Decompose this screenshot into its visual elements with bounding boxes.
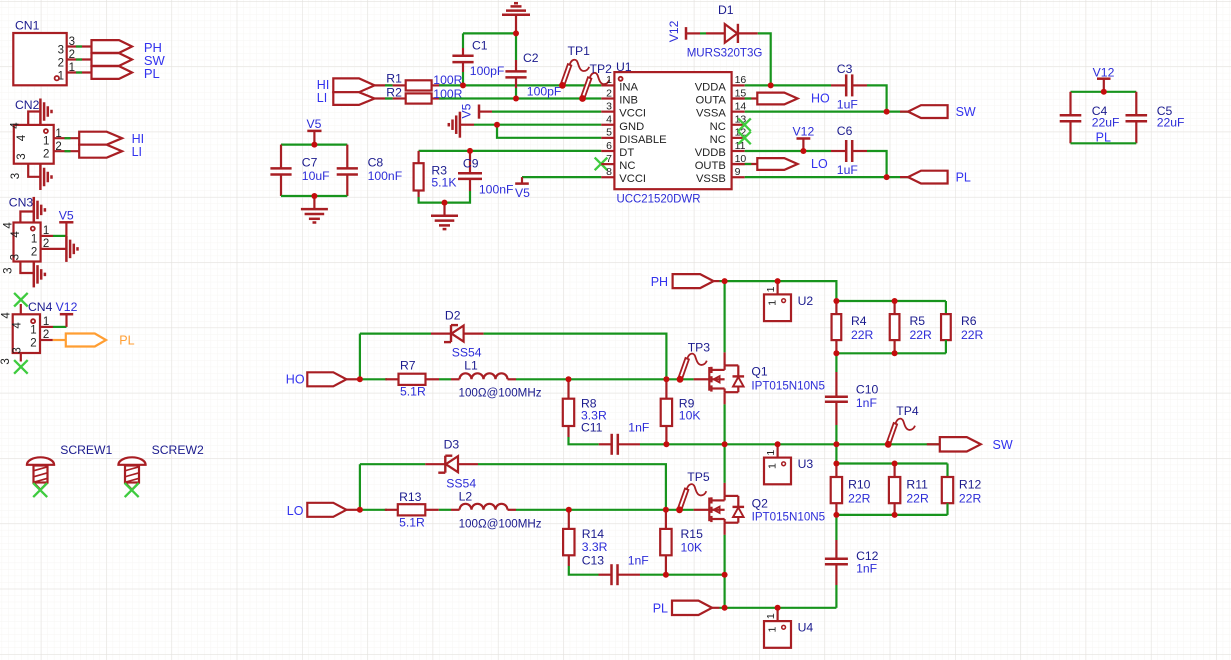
wire [53,235,66,237]
capacitor C4 [1060,92,1120,144]
junction [892,461,898,467]
resistor R10 [831,464,871,515]
svg-text:3: 3 [10,173,22,179]
svg-text:14: 14 [735,100,747,112]
junction [311,193,317,199]
ground R3C9 [431,203,458,230]
svg-text:1: 1 [55,128,61,140]
wire [516,378,694,380]
junction [663,572,669,578]
flag PL [92,66,160,81]
junction [884,174,890,180]
svg-text:1: 1 [766,463,778,469]
ground CN2 bottom [40,164,51,190]
wire VDDB [745,150,831,152]
junction [722,605,728,611]
svg-text:22R: 22R [959,492,982,506]
svg-text:LI: LI [317,91,327,105]
svg-text:INB: INB [619,95,638,107]
svg-text:C1: C1 [472,39,488,53]
svg-text:R6: R6 [961,314,977,328]
junction [677,376,683,382]
svg-text:4: 4 [606,114,612,126]
svg-text:SCREW1: SCREW1 [60,443,112,457]
svg-text:U2: U2 [798,294,814,308]
junction [833,461,839,467]
flag PL orange [66,334,135,348]
svg-text:IPT015N10N5: IPT015N10N5 [752,509,826,523]
svg-text:V12: V12 [56,300,78,314]
diode D1 MURS320T3G [687,3,763,60]
wire [53,326,67,328]
no-connect CN4 pin4 [14,293,28,307]
svg-text:3: 3 [10,254,22,260]
junction [892,298,898,304]
svg-text:V12: V12 [667,20,681,42]
junction [442,200,448,206]
svg-text:2: 2 [606,87,612,99]
resistor R5 [890,301,932,353]
wire VSSA-SW [745,110,908,112]
svg-text:3: 3 [16,153,28,159]
flag HO out [732,92,830,106]
svg-text:TP5: TP5 [687,470,710,484]
wire [439,509,451,511]
flag SW bottom [927,437,1013,452]
svg-text:4: 4 [10,231,22,238]
svg-text:NC: NC [710,121,726,133]
capacitor C3 [831,62,867,112]
junction [513,96,519,102]
svg-text:1: 1 [765,613,777,619]
svg-text:PL: PL [119,334,134,348]
resistor R9 [661,379,701,444]
wire [569,437,599,444]
wire SW row [640,443,940,445]
svg-text:1: 1 [43,136,49,148]
junction [892,350,898,356]
svg-text:D2: D2 [445,308,461,322]
inductor L1 [451,358,542,399]
flag SW [92,53,166,68]
svg-text:LO: LO [287,504,304,518]
wire D3 left [360,464,425,510]
svg-text:4: 4 [16,134,28,141]
wire D2 corner [359,334,361,380]
junction [663,441,669,447]
testpoint TP3 [677,341,711,383]
resistor R1 [386,72,462,91]
connector CN2 [10,98,80,179]
wire VSSB-PL [745,176,908,178]
svg-text:100Ω@100MHz: 100Ω@100MHz [459,517,542,531]
svg-text:U1: U1 [616,60,632,74]
junction [494,122,500,128]
flag PH bottom [651,274,714,289]
svg-text:R12: R12 [959,478,982,492]
capacitor C13 [582,554,649,586]
ground C7C8 [301,196,328,223]
wire [569,566,599,575]
wire PH row [714,281,837,301]
junction [467,148,473,154]
wire LO row [360,509,387,511]
svg-text:2: 2 [43,149,49,161]
resistor R4 [832,301,874,353]
wire [867,85,887,111]
svg-text:C13: C13 [582,554,605,568]
junction [775,278,781,284]
svg-text:TP3: TP3 [688,341,711,355]
svg-text:5.1K: 5.1K [431,175,456,189]
op-amp U1 UCC21520DWR [601,60,746,206]
wire rail R4R5R6 bottom [836,340,946,353]
wire INA [439,84,601,86]
resistor R13 [385,490,439,529]
svg-text:SCREW2: SCREW2 [152,443,204,457]
svg-text:R2: R2 [386,86,402,100]
flag HI input [317,78,375,92]
junction [884,109,890,115]
svg-text:1: 1 [765,286,777,292]
junction [722,441,728,447]
svg-text:8: 8 [606,166,612,178]
connector CN3 [3,196,67,274]
junction [357,507,363,513]
wire [375,97,393,99]
resistor R3 [414,151,457,197]
junction [833,441,839,447]
resistor R7 [385,358,439,398]
wire [385,84,393,86]
svg-text:1nF: 1nF [628,421,649,435]
capacitor C11 [581,421,649,455]
svg-text:INA: INA [619,81,638,93]
svg-text:VCCI: VCCI [619,173,646,185]
svg-text:C8: C8 [368,156,384,170]
resistor R14 [563,510,608,566]
svg-text:R15: R15 [681,527,704,541]
svg-text:100pF: 100pF [470,64,505,78]
wire / net PL [1071,131,1137,145]
wire [945,301,947,314]
svg-text:OUTB: OUTB [695,160,726,172]
svg-text:R14: R14 [582,527,605,541]
svg-text:1: 1 [606,74,612,86]
capacitor C12 [825,515,879,608]
svg-text:6: 6 [606,140,612,152]
svg-text:R7: R7 [400,358,416,372]
svg-text:PL: PL [1096,131,1111,145]
svg-text:L2: L2 [459,489,473,503]
svg-text:LO: LO [811,157,828,171]
svg-text:L1: L1 [464,358,478,372]
svg-text:3: 3 [58,45,64,57]
wire DISABLE [497,125,601,138]
wire rail R4R5R6 top [836,300,946,302]
wire DT [419,150,602,152]
svg-text:CN3: CN3 [9,196,34,210]
supply V12 D1 [667,20,700,42]
no-connect pin13 [738,118,751,131]
junction [663,376,669,382]
svg-text:10uF: 10uF [302,169,330,183]
transistor Q2 IPT015N10N5 [694,496,826,523]
svg-text:PL: PL [653,602,668,616]
svg-text:22uF: 22uF [1157,116,1185,130]
wire [758,33,771,85]
testpoint TP2 [579,62,612,102]
svg-text:100Ω@100MHz: 100Ω@100MHz [459,386,542,400]
svg-text:V5: V5 [460,103,474,118]
svg-text:1: 1 [766,627,778,633]
svg-text:R1: R1 [386,72,402,86]
supply V5 CN3 [59,209,74,236]
wire R3-C9 bottom [419,191,470,203]
svg-text:3: 3 [606,100,612,112]
svg-text:3.3R: 3.3R [582,540,608,554]
inductor L2 [451,489,542,530]
diode D3 SS54 [425,437,478,490]
svg-text:3: 3 [12,347,24,353]
ground pin4 [449,112,474,138]
junction [775,441,781,447]
screw SCREW2 [118,443,204,497]
svg-text:HI: HI [132,132,145,146]
svg-text:TP4: TP4 [896,404,919,418]
svg-text:2: 2 [55,141,61,153]
svg-text:TP1: TP1 [568,44,591,58]
wire Q2 drain [723,444,725,496]
jumper U4 [764,608,813,648]
svg-text:D3: D3 [444,437,460,451]
supply V12 pin11 [793,124,815,151]
svg-text:100nF: 100nF [368,169,403,183]
svg-text:GND: GND [619,121,644,133]
wire [516,509,694,511]
svg-text:OUTA: OUTA [696,95,727,107]
svg-text:C10: C10 [856,382,879,396]
wire INB [439,97,601,99]
svg-text:22R: 22R [910,328,933,342]
resistor R6 [941,314,984,342]
svg-text:1: 1 [30,324,36,336]
svg-text:PH: PH [651,275,668,289]
svg-text:PL: PL [144,66,160,81]
wire [385,97,393,99]
svg-text:1uF: 1uF [837,163,858,177]
svg-text:SW: SW [993,438,1013,452]
svg-text:C11: C11 [581,421,603,435]
ground CN3 pin2 [66,236,77,262]
svg-text:1nF: 1nF [856,396,877,410]
wire C13 rail [640,574,725,576]
wire [946,464,948,478]
svg-text:3: 3 [0,358,12,364]
svg-text:2: 2 [30,337,36,349]
svg-text:5.1R: 5.1R [399,515,425,529]
svg-text:UCC21520DWR: UCC21520DWR [617,192,701,206]
junction [566,376,572,382]
svg-text:7: 7 [606,153,612,165]
svg-text:Q1: Q1 [751,365,767,379]
flag LO out [732,157,828,171]
capacitor C7 [270,145,329,196]
screw SCREW1 [27,443,113,497]
wire [281,195,347,197]
svg-text:CN2: CN2 [15,98,40,112]
svg-text:R10: R10 [848,478,871,492]
flag HI [79,132,144,146]
svg-text:1: 1 [765,450,777,456]
junction [1101,89,1107,95]
svg-text:HI: HI [317,78,330,92]
ground CN2 top [40,99,51,125]
svg-text:C2: C2 [523,51,539,65]
junction [311,142,317,148]
svg-text:1: 1 [31,233,37,245]
junction [800,148,806,154]
svg-text:DT: DT [619,147,634,159]
svg-text:2: 2 [58,58,64,70]
wire [700,32,706,34]
wire VCCI [492,110,601,112]
junction [833,350,839,356]
junction [833,512,839,518]
svg-text:R5: R5 [910,314,926,328]
svg-text:4: 4 [3,222,15,229]
svg-text:SW: SW [956,105,976,119]
wire GND [474,124,601,126]
svg-text:5.1R: 5.1R [400,385,426,399]
svg-text:5: 5 [606,127,612,139]
flag LI [79,145,142,159]
resistor R12 [942,477,982,506]
supply V5 pin8 [515,177,530,200]
wire Q2 source [723,523,725,608]
svg-text:VSSA: VSSA [696,108,726,120]
capacitor C8 [337,145,402,196]
connector CN1 [13,19,91,86]
flag PL right [900,170,971,184]
capacitor C6 [831,124,867,177]
resistor R8 [563,379,607,437]
svg-text:CN1: CN1 [15,19,40,33]
no-connect pin12 [738,132,751,145]
supply V5 C7 [307,117,322,144]
svg-text:V12: V12 [793,124,815,138]
svg-text:C9: C9 [463,157,479,171]
ground CN3 top [34,197,45,223]
svg-text:2: 2 [31,246,37,258]
svg-text:VCCI: VCCI [619,108,646,120]
junction [775,605,781,611]
svg-text:PL: PL [956,170,971,184]
jumper U2 [764,281,813,321]
wire Q1 drain [723,281,725,365]
svg-text:3: 3 [3,267,15,273]
wire VDDA [745,84,831,86]
capacitor C1 [452,33,504,85]
svg-text:22R: 22R [906,492,929,506]
junction [677,507,683,513]
svg-text:4: 4 [12,322,24,329]
svg-text:16: 16 [735,74,747,86]
junction [768,82,774,88]
wire [439,378,451,380]
svg-text:CN4: CN4 [28,300,53,314]
wire VCCI8 [522,176,601,178]
wire [1071,91,1137,93]
svg-text:1nF: 1nF [628,554,649,568]
svg-text:IPT015N10N5: IPT015N10N5 [751,379,825,393]
wire D3 right [478,464,666,510]
junction [892,512,898,518]
svg-text:VSSB: VSSB [696,173,726,185]
svg-text:C7: C7 [302,156,318,170]
wire [463,32,516,34]
svg-text:R4: R4 [851,314,867,328]
svg-text:LI: LI [132,145,142,159]
wire rail R10R11R12 bottom [836,503,947,515]
svg-text:HO: HO [286,373,305,387]
svg-text:22uF: 22uF [1092,116,1120,130]
svg-text:HO: HO [811,92,830,106]
capacitor C9 [458,153,513,196]
svg-text:VDDA: VDDA [695,81,727,93]
svg-text:D1: D1 [718,3,734,17]
flag LO bottom [287,503,360,518]
capacitor C2 [505,33,561,98]
wire D2 right [484,334,667,380]
wire PL row [712,607,836,609]
svg-text:1nF: 1nF [856,562,877,576]
wire HO row [360,378,387,380]
capacitor C5 [1126,92,1185,144]
testpoint TP4 [885,404,919,448]
svg-text:C6: C6 [837,124,853,138]
svg-text:R11: R11 [906,478,928,492]
svg-text:4: 4 [10,122,22,129]
junction [722,572,728,578]
resistor R2 [386,86,462,104]
junction [833,298,839,304]
junction [566,507,572,513]
flag HO bottom [286,372,360,386]
no-connect pin7 [595,158,608,171]
svg-text:1: 1 [766,300,778,306]
wire [281,144,347,146]
svg-text:R13: R13 [399,490,422,504]
svg-text:4: 4 [1,312,13,319]
svg-text:9: 9 [735,166,741,178]
junction [460,82,466,88]
wire D2 left [360,333,431,335]
svg-text:1uF: 1uF [837,98,858,112]
supply V12 CN4 [56,300,78,327]
svg-text:V5: V5 [515,186,530,200]
wire [867,151,887,177]
flag LI input [317,91,375,105]
svg-text:V12: V12 [1093,66,1115,80]
connector CN4 [0,300,53,365]
wire [375,84,393,86]
svg-text:DISABLE: DISABLE [619,134,666,146]
svg-text:C3: C3 [837,62,853,76]
svg-text:3: 3 [69,36,75,48]
svg-text:MURS320T3G: MURS320T3G [687,46,763,60]
testpoint TP1 [559,44,590,89]
